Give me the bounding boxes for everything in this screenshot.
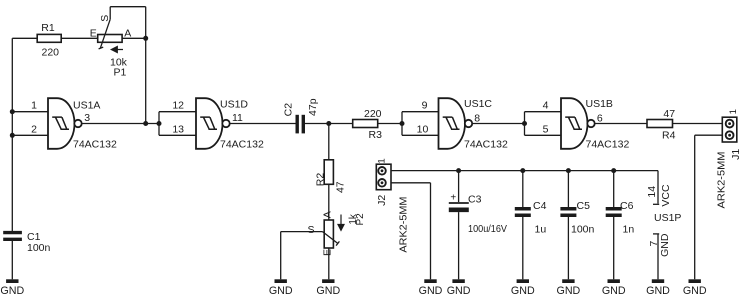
svg-text:47: 47	[335, 181, 347, 193]
svg-text:GND: GND	[511, 285, 535, 295]
node C5 junction	[566, 168, 571, 173]
ground C6	[602, 279, 626, 295]
wire C6 top	[613, 171, 615, 207]
svg-text:GND: GND	[419, 285, 443, 295]
svg-text:GND: GND	[646, 285, 670, 295]
svg-text:S: S	[99, 15, 111, 22]
potentiometer P2	[308, 211, 367, 256]
node C2-R2 junction	[326, 121, 331, 126]
svg-text:R4: R4	[662, 129, 676, 141]
svg-text:VCC: VCC	[660, 184, 672, 207]
svg-text:1: 1	[377, 158, 388, 163]
capacitor C1	[3, 231, 50, 254]
capacitor C2	[282, 98, 319, 133]
ground J2	[419, 279, 443, 295]
svg-text:US1B: US1B	[586, 98, 613, 110]
potentiometer P1	[90, 7, 131, 79]
pin number 4	[543, 100, 549, 112]
svg-text:US1P: US1P	[654, 212, 681, 224]
svg-text:R3: R3	[369, 129, 383, 141]
label US1A	[73, 100, 100, 112]
svg-text:2: 2	[31, 123, 37, 135]
svg-text:GND: GND	[557, 285, 581, 295]
wire C5 bottom	[567, 217, 569, 279]
op-amp US1C nand gate	[439, 98, 473, 149]
wire P2 E down	[328, 248, 330, 279]
wire US1D pin12	[159, 111, 196, 113]
wire C6 bottom	[613, 217, 615, 279]
label C6	[620, 200, 634, 212]
wire US1C pin10	[402, 134, 439, 136]
svg-text:C3: C3	[468, 194, 482, 206]
svg-text:74AC132: 74AC132	[220, 139, 264, 151]
label US1D	[220, 99, 248, 111]
svg-text:10: 10	[417, 123, 429, 135]
pin number 10	[417, 123, 429, 135]
svg-text:12: 12	[172, 100, 184, 112]
svg-text:74AC132: 74AC132	[464, 138, 508, 150]
wire C4 bottom	[522, 217, 524, 279]
svg-text:GND: GND	[447, 285, 471, 295]
svg-text:8: 8	[474, 113, 480, 125]
wire VCC rail	[391, 170, 658, 172]
value C5	[571, 224, 595, 236]
svg-text:47: 47	[663, 108, 675, 120]
resistor R1	[37, 22, 61, 58]
wire J1 pin2 down	[694, 135, 696, 279]
label 74AC132 US1C	[464, 138, 508, 150]
resistor R3	[353, 108, 382, 141]
wire US1C input branch vertical	[401, 112, 403, 136]
svg-text:US1D: US1D	[220, 99, 248, 111]
label 74AC132 US1A	[73, 139, 117, 151]
svg-text:P1: P1	[114, 67, 127, 79]
pin number 3	[84, 112, 90, 124]
svg-text:220: 220	[42, 46, 60, 58]
label US1B	[586, 98, 613, 110]
svg-text:A: A	[322, 211, 334, 218]
wire US1D input branch vertical	[158, 112, 160, 136]
wire US1B output to R4	[595, 123, 647, 125]
label 74AC132 US1B	[586, 138, 630, 150]
svg-text:R2: R2	[315, 173, 327, 187]
wire J2 pin2 right	[391, 182, 431, 184]
pin number 1	[31, 100, 37, 112]
node pin1 junction	[10, 109, 15, 114]
svg-text:J2: J2	[376, 195, 388, 206]
op-amp US1D nand gate	[196, 98, 230, 149]
wire C4 top	[522, 171, 524, 207]
svg-text:J1: J1	[730, 149, 740, 160]
wire US1A pin2	[12, 134, 48, 136]
ground C5	[557, 279, 581, 295]
wire R3 to US1C branch	[378, 123, 402, 125]
svg-text:GND: GND	[683, 285, 707, 295]
pin number 11	[232, 112, 243, 124]
op-amp US1B nand gate	[561, 98, 595, 149]
svg-text:220: 220	[364, 108, 382, 120]
capacitor C4	[515, 209, 531, 216]
svg-text:3: 3	[84, 112, 90, 124]
svg-text:ARK2-5MM: ARK2-5MM	[716, 152, 728, 209]
wire US1D output to C2	[230, 123, 295, 125]
capacitor C5	[560, 209, 576, 216]
wire C1 to ground	[11, 241, 13, 279]
pin number 12	[172, 100, 184, 112]
wire C2 to R3	[305, 123, 353, 125]
svg-text:+: +	[450, 193, 456, 204]
node feedback-output junction	[143, 121, 148, 126]
resistor R2	[315, 160, 347, 193]
ground J1	[683, 279, 707, 295]
svg-text:1: 1	[31, 100, 37, 112]
wire P1 S loop top	[110, 6, 146, 8]
svg-text:74AC132: 74AC132	[73, 139, 117, 151]
svg-text:GND: GND	[602, 285, 626, 295]
pin number 5	[543, 123, 549, 135]
pin number 13	[172, 123, 184, 135]
svg-text:C2: C2	[282, 103, 294, 117]
capacitor C6	[606, 209, 622, 216]
capacitor C3	[449, 193, 507, 236]
ground P2 wiper	[269, 279, 293, 295]
svg-text:5: 5	[543, 123, 549, 135]
svg-text:ARK2-5MM: ARK2-5MM	[398, 197, 410, 253]
ic US1P power pin 14 VCC	[646, 184, 682, 224]
svg-text:13: 13	[172, 123, 184, 135]
wire P2 wiper left	[281, 231, 323, 233]
svg-text:A: A	[124, 27, 131, 39]
node P1 junction	[143, 36, 148, 41]
node C4 junction	[520, 168, 525, 173]
wire R2 to P2	[328, 184, 330, 220]
svg-text:1u: 1u	[535, 224, 547, 236]
pin number 2	[31, 123, 37, 135]
node US1D input junction	[157, 121, 162, 126]
svg-text:1: 1	[728, 109, 739, 114]
wire US1B input branch vertical	[524, 112, 526, 136]
ground C4	[511, 279, 535, 295]
svg-text:GND: GND	[269, 285, 293, 295]
node pin2 junction	[10, 133, 15, 138]
svg-text:6: 6	[597, 113, 603, 125]
svg-text:C6: C6	[620, 200, 634, 212]
node US1B input junction	[522, 121, 527, 126]
ground C3	[447, 279, 471, 295]
value C4	[535, 224, 547, 236]
svg-text:9: 9	[422, 100, 428, 112]
wire feedback vertical x=146	[145, 38, 147, 123]
svg-text:S: S	[308, 224, 315, 236]
connector J2	[376, 158, 410, 252]
svg-text:P2: P2	[355, 213, 366, 226]
wire US1C pin9	[402, 111, 439, 113]
svg-text:11: 11	[232, 112, 243, 124]
wire J2 pin2 down	[430, 183, 432, 279]
ic US1P power pin 7 GND	[648, 233, 671, 279]
label 74AC132 US1D	[220, 139, 264, 151]
value C6	[623, 224, 635, 236]
wire R1 to P1	[61, 37, 97, 39]
wire P1 loop down	[145, 7, 147, 39]
wire US1B pin5	[525, 134, 562, 136]
svg-text:E: E	[90, 27, 97, 39]
svg-text:C4: C4	[533, 200, 547, 212]
wire C3 top	[458, 171, 460, 202]
svg-text:E: E	[322, 249, 334, 256]
wire J1 pin2 left	[695, 134, 723, 136]
wire R1 left	[12, 37, 37, 39]
op-amp US1A nand gate	[48, 98, 82, 149]
wire US1A pin1	[12, 111, 48, 113]
wire US1D pin13	[159, 134, 196, 136]
ground US1P	[646, 279, 670, 295]
svg-text:C5: C5	[577, 200, 591, 212]
wire US1B pin4	[525, 111, 562, 113]
svg-text:47p: 47p	[307, 98, 319, 116]
svg-text:100n: 100n	[571, 224, 595, 236]
svg-text:GND: GND	[659, 233, 671, 257]
wire left column vertical x=12	[11, 38, 13, 231]
wire US1A output	[82, 123, 159, 125]
label C5	[577, 200, 591, 212]
ground C1	[0, 279, 24, 295]
label C4	[533, 200, 547, 212]
svg-text:4: 4	[543, 100, 549, 112]
svg-text:100n: 100n	[27, 242, 51, 254]
wire C5 top	[567, 171, 569, 207]
node US1C input junction	[400, 121, 405, 126]
resistor R4	[647, 108, 676, 141]
pin number 6	[597, 113, 603, 125]
pin number 8	[474, 113, 480, 125]
wire VCC rail corner down	[657, 171, 659, 204]
label US1C	[464, 98, 492, 110]
svg-text:US1A: US1A	[73, 100, 100, 112]
ground P2	[316, 279, 340, 295]
svg-text:14: 14	[646, 186, 658, 198]
wire P2 wiper down	[280, 232, 282, 280]
wire R4 to J1	[673, 123, 723, 125]
svg-text:GND: GND	[316, 285, 340, 295]
wire US1C output	[473, 123, 525, 125]
svg-text:US1C: US1C	[464, 98, 492, 110]
svg-text:100u/16V: 100u/16V	[468, 223, 507, 235]
svg-text:74AC132: 74AC132	[586, 138, 630, 150]
svg-text:GND: GND	[0, 285, 24, 295]
wire junction down to R2	[328, 124, 330, 160]
node C6 junction	[611, 168, 616, 173]
connector J1	[716, 109, 740, 208]
node C3 junction	[456, 168, 461, 173]
svg-text:1n: 1n	[623, 224, 635, 236]
wire C3 bottom	[458, 212, 460, 279]
svg-text:R1: R1	[41, 22, 55, 34]
wire P1 A to junction	[122, 37, 146, 39]
pin number 9	[422, 100, 428, 112]
